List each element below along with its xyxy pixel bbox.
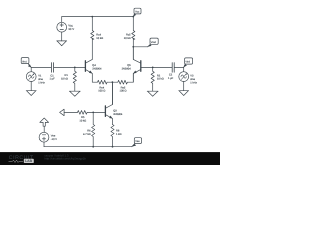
label Q3 2N3904 [113, 110, 123, 116]
capacitor C1 [51, 63, 74, 73]
svg-text:1 µF: 1 µF [49, 78, 55, 81]
capacitor C2 [172, 63, 184, 73]
node junction rail-Rc5 [132, 16, 134, 18]
svg-text:Vin2: Vin2 [185, 61, 190, 64]
resistor R2 [151, 67, 154, 91]
label R5 10 k [79, 116, 86, 122]
svg-text:100 Ω: 100 Ω [98, 90, 105, 93]
node base junction left [74, 67, 76, 69]
svg-text:2N3904: 2N3904 [113, 113, 123, 116]
node base junction right [152, 67, 154, 69]
node Vin2 flag [184, 58, 193, 68]
svg-text:1 kHz: 1 kHz [190, 81, 197, 84]
resistor Re5 [112, 73, 133, 84]
ground [179, 91, 189, 96]
svg-text:10 kΩ: 10 kΩ [79, 119, 86, 122]
footer text [45, 153, 87, 160]
node flag left bias [60, 109, 78, 116]
svg-text:10 V: 10 V [68, 27, 74, 31]
label Rc5 10 k [124, 33, 131, 39]
transistor Q5 [133, 47, 153, 82]
ground [57, 41, 67, 46]
svg-text:1 kHz: 1 kHz [38, 81, 45, 84]
node junction rail-Rc4 [91, 16, 93, 18]
svg-text:LAB: LAB [25, 159, 33, 163]
svg-text:100 Ω: 100 Ω [120, 90, 127, 93]
label V1 sine 1kHz [38, 75, 45, 85]
node Vee flag box [132, 138, 142, 147]
label V3 sine 1kHz [190, 75, 197, 85]
label R8 1 k [116, 129, 121, 135]
svg-text:4.7 kΩ: 4.7 kΩ [83, 133, 91, 136]
resistor Re4 [92, 80, 112, 84]
label Q4 2N3904 [92, 64, 102, 70]
label Rc4 10 k [96, 33, 103, 39]
wire top rail [62, 16, 134, 18]
svg-text:Vout: Vout [151, 41, 156, 44]
voltage source Vee [39, 132, 49, 146]
resistor Rc4 [91, 17, 94, 60]
label Re4 100 [98, 86, 105, 92]
resistor Rc5 [132, 17, 135, 60]
node junction R8-rail [112, 146, 114, 148]
svg-text:Vin1: Vin1 [22, 60, 27, 63]
svg-text:-10 V: -10 V [51, 138, 57, 141]
label Vcc 10 V [68, 23, 74, 31]
node VEE up flag [40, 118, 49, 132]
svg-text:http://circuitlab.com/c/ky2mzg: http://circuitlab.com/c/ky2mzgp1b [45, 157, 87, 161]
svg-text:10 kΩ: 10 kΩ [124, 37, 131, 40]
logo CIRCUIT LAB [9, 155, 34, 163]
label Re5 100 [120, 86, 127, 92]
svg-text:2N3904: 2N3904 [92, 68, 102, 71]
label R6 4.7 k [83, 129, 91, 135]
svg-text:Vee: Vee [135, 140, 140, 143]
ground [147, 91, 158, 96]
svg-text:10 kΩ: 10 kΩ [96, 37, 103, 40]
footer watermark bar [0, 152, 220, 165]
wire to Q3 collector [112, 82, 114, 104]
ground [69, 91, 80, 96]
wire R2 to C2 [153, 66, 172, 68]
label R1 10 k [61, 74, 68, 80]
wire bottom rail [44, 146, 132, 148]
svg-text:Vcc: Vcc [135, 11, 140, 14]
voltage source Vcc [57, 17, 67, 41]
node Vin1 flag [21, 58, 31, 68]
label R2 10 k [157, 74, 164, 80]
svg-text:1 µF: 1 µF [168, 77, 174, 80]
label C2 1uF [168, 73, 174, 79]
label Q5 2N3904 [122, 64, 132, 70]
node Vout flag [148, 38, 159, 47]
node Vcc flag [133, 8, 141, 16]
transistor Q3 [105, 82, 112, 124]
svg-text:10 kΩ: 10 kΩ [61, 78, 68, 81]
svg-text:2N3904: 2N3904 [122, 68, 132, 71]
ground [26, 91, 36, 96]
wire Vout [133, 46, 147, 48]
resistor R5 [78, 111, 106, 115]
label Vee -10 V [51, 134, 57, 141]
resistor R6 [92, 112, 95, 146]
node base junction Q3 [92, 112, 94, 114]
source V3 [179, 67, 189, 90]
svg-text:1 kΩ: 1 kΩ [116, 133, 121, 136]
transistor Q4 [75, 59, 93, 82]
resistor R8 [111, 125, 114, 147]
node Vout junction [132, 46, 134, 48]
node emitter junction [112, 81, 114, 83]
label C1 1uF [49, 74, 55, 80]
source V1 [26, 67, 36, 90]
node junction R6-rail [92, 146, 94, 148]
wire V1 to C1 [31, 66, 51, 68]
resistor R1 [73, 67, 76, 91]
svg-text:10 kΩ: 10 kΩ [157, 78, 164, 81]
